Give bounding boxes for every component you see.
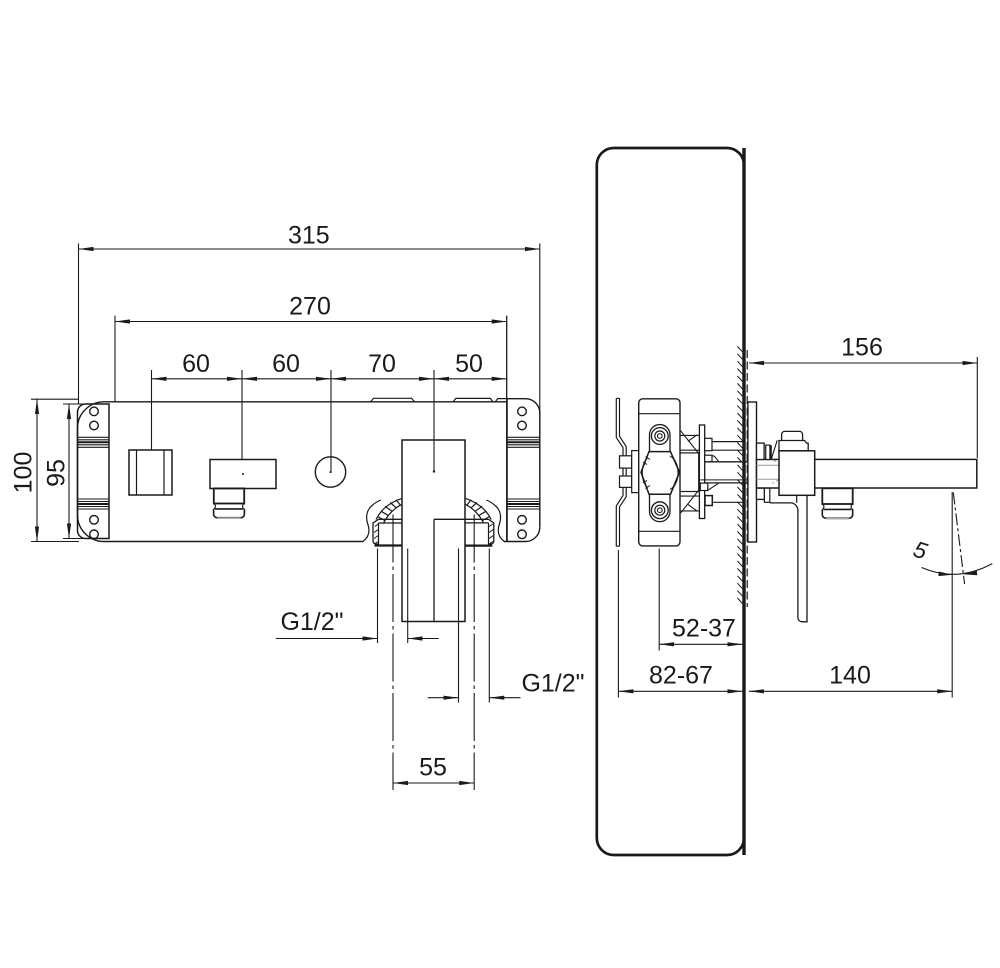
- svg-text:100: 100: [10, 452, 38, 494]
- lower connection stub: [680, 495, 699, 497]
- dimension G1/2 left bush: [377, 549, 379, 644]
- svg-text:140: 140: [829, 662, 871, 690]
- escutcheon plate: [748, 402, 757, 542]
- angle arrow left: [938, 572, 952, 577]
- svg-text:60: 60: [272, 350, 300, 378]
- right bracket upper rib band: [507, 437, 540, 447]
- dimension 60 (second): [330, 370, 332, 473]
- plate top tab left: [371, 398, 415, 402]
- dimension 52-37: [658, 549, 660, 651]
- dimension 82-67: [617, 550, 619, 698]
- spout body (front): [402, 440, 465, 622]
- svg-text:60: 60: [182, 350, 210, 378]
- left bracket screw holes: [90, 407, 99, 416]
- dimension 50: [434, 378, 507, 380]
- diverter neck: [214, 504, 216, 509]
- svg-text:G1/2": G1/2": [280, 608, 343, 636]
- svg-text:156: 156: [841, 334, 883, 362]
- square connection boss (left): [129, 450, 172, 495]
- wall panel outline: [597, 148, 744, 855]
- clamp plate: [632, 451, 639, 493]
- right threaded bush G1/2: [465, 519, 494, 545]
- wall face line (thick): [742, 148, 745, 855]
- left wall bracket: [78, 404, 110, 539]
- plaster surface dashed line: [746, 350, 748, 607]
- left threaded bush G1/2: [373, 519, 402, 545]
- spout tube from wall: [757, 459, 977, 488]
- diverter bottom cap: [214, 509, 245, 518]
- lower pipe line: [712, 501, 744, 503]
- dimension 156: [976, 357, 978, 458]
- dimension 70: [433, 370, 435, 471]
- upper pipe nut: [705, 438, 712, 450]
- in-wall mounting strip (side profile): [616, 398, 623, 546]
- upper screw slot: [650, 425, 671, 453]
- upper fixing screw: [651, 428, 668, 445]
- diverter stem: [214, 488, 244, 503]
- aerator outlet under spout: [822, 488, 852, 504]
- svg-text:95: 95: [43, 459, 71, 487]
- svg-text:55: 55: [419, 754, 447, 782]
- mounting plate outline: [78, 399, 540, 542]
- centerline left bush: [392, 515, 394, 791]
- 5 degree angle arc: [922, 564, 993, 575]
- hidden cartridge arc: [773, 460, 784, 483]
- wall flange plate: [699, 425, 704, 519]
- clamp block upper: [620, 456, 632, 468]
- upper retainer diagonal: [681, 431, 702, 457]
- right bracket lower rib band: [507, 499, 540, 509]
- left bracket lower rib band: [78, 499, 110, 509]
- pilot hole circle: [315, 457, 345, 487]
- valve outlet block (between body and flange): [678, 453, 699, 492]
- valve body block: [779, 451, 815, 496]
- lower fixing screw: [651, 502, 668, 519]
- central pipe union nut lower: [700, 483, 708, 490]
- centerline right bush: [473, 515, 475, 791]
- in-wall body housing: [639, 399, 680, 546]
- hex nut center: [641, 452, 680, 495]
- upper connection stub: [680, 434, 699, 436]
- right spring washer: [465, 498, 504, 541]
- svg-text:82-67: 82-67: [649, 662, 713, 690]
- spout 5 degree axis (dash-dot): [953, 493, 964, 585]
- svg-text:70: 70: [368, 350, 396, 378]
- outlet connector lower: [757, 488, 765, 499]
- dimension 100: [31, 398, 79, 400]
- svg-text:315: 315: [288, 222, 330, 250]
- dimension 55: [393, 782, 474, 784]
- central pipe union nut upper: [705, 455, 712, 462]
- left bracket upper rib band: [78, 437, 110, 447]
- main supply pipe through wall: [705, 461, 748, 463]
- angle arrow right: [963, 571, 977, 576]
- cartridge cap: [779, 441, 808, 451]
- svg-text:52-37: 52-37: [672, 615, 736, 643]
- dimension 95: [63, 403, 90, 405]
- svg-text:5: 5: [910, 536, 930, 565]
- right wall bracket: [506, 399, 508, 542]
- left spring washer: [363, 498, 402, 541]
- dimension 140: [951, 492, 953, 698]
- cartridge cap stub: [782, 431, 803, 440]
- dimension 315: [78, 244, 80, 405]
- outlet connector upper: [757, 443, 765, 459]
- svg-text:270: 270: [289, 293, 331, 321]
- clamp block lower: [620, 476, 632, 487]
- finished wall hatching: [737, 346, 742, 603]
- plate top tab right: [453, 398, 507, 401]
- dimension 270: [114, 316, 116, 402]
- dimension G1/2 right bush: [458, 549, 460, 703]
- lower screw slot: [650, 494, 671, 522]
- svg-text:50: 50: [455, 350, 483, 378]
- svg-text:G1/2": G1/2": [521, 670, 584, 698]
- lever handle: [770, 495, 807, 622]
- lower retainer diagonal: [681, 487, 702, 513]
- diverter housing (rectangle component): [210, 460, 276, 489]
- upper pipe: [712, 441, 744, 443]
- lower pipe nut: [705, 496, 712, 506]
- dimension 60 (first) extension lines: [151, 370, 153, 450]
- right bracket screw holes: [518, 407, 527, 416]
